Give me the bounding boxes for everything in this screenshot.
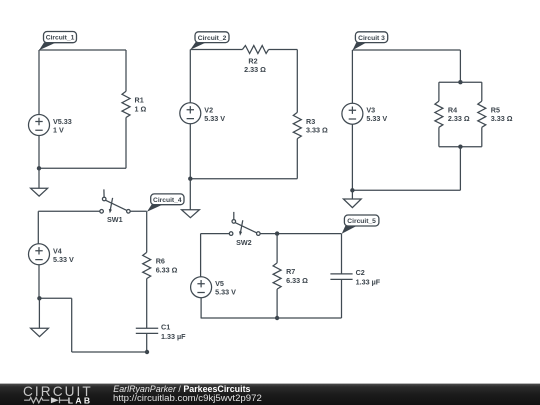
svg-text:2.33 Ω: 2.33 Ω [244, 65, 266, 74]
wire bottom circuit 2 [190, 178, 297, 180]
svg-text:6.33 Ω: 6.33 Ω [156, 265, 178, 274]
svg-text:R3: R3 [306, 117, 315, 126]
wire C2 lower lead [341, 279, 343, 318]
svg-text:Circuit_5: Circuit_5 [347, 218, 376, 225]
wire R6 to C1 [146, 279, 148, 329]
junction dot circuit 1 [37, 166, 41, 170]
junction dot circuit 4 left [37, 296, 41, 300]
svg-text:Circuit 3: Circuit 3 [358, 35, 385, 42]
resistor R1 [122, 91, 130, 117]
wire left lower circuit 2 [189, 124, 191, 179]
svg-text:R4: R4 [448, 106, 457, 115]
logo resistor squiggle and diode [24, 397, 68, 403]
wire R5 lower lead [481, 127, 483, 146]
svg-text:C1: C1 [161, 322, 170, 331]
svg-text:1 Ω: 1 Ω [135, 104, 147, 113]
wire right upper circuit 4 [146, 211, 148, 252]
wire top of circuit 1 [39, 49, 126, 51]
svg-text:Circuit_2: Circuit_2 [198, 35, 227, 42]
svg-text:1.33 µF: 1.33 µF [161, 332, 186, 341]
wire top bar parallel circuit 3 [439, 81, 482, 83]
svg-text:Circuit_1: Circuit_1 [46, 35, 75, 42]
wire R7 upper lead [276, 234, 278, 263]
junction dot circuit 4 bottom right [145, 350, 149, 354]
svg-text:5.33 V: 5.33 V [204, 114, 225, 123]
wire V5 lower lead [200, 298, 202, 318]
wire bottom circuit 5 [201, 317, 342, 319]
wire junction to riser circuit 4 [39, 297, 71, 299]
voltage source V2 [180, 103, 201, 124]
wire top-left of circuit 4 [38, 210, 100, 212]
ground circuit 1 [31, 168, 48, 196]
wire left riser circuit 4 [71, 298, 73, 352]
svg-text:5.33 V: 5.33 V [366, 114, 387, 123]
ground circuit 4 [31, 298, 49, 336]
capacitor C2 [330, 274, 352, 280]
wire SW2 to C2 corner [260, 233, 341, 235]
wire left lower circuit 1 [38, 136, 40, 169]
wire bottom circuit 1 [39, 167, 126, 169]
svg-text:R7: R7 [286, 267, 295, 276]
switch SW2 [229, 212, 260, 236]
wire left upper circuit 1 [38, 50, 40, 115]
node Circuit_1 flag [39, 32, 77, 51]
resistor R6 [143, 252, 151, 278]
wire R4 lower lead [438, 127, 440, 146]
wire right upper circuit 3 [459, 50, 461, 82]
wire from SW1 to corner [130, 210, 147, 212]
voltage source V3 [342, 103, 363, 124]
svg-text:http://circuitlab.com/c9kj5wvt: http://circuitlab.com/c9kj5wvt2p972 [113, 393, 262, 404]
wire left upper circuit 5 [200, 234, 202, 277]
wire right lower circuit 3 [459, 147, 461, 191]
svg-text:2.33 Ω: 2.33 Ω [448, 114, 470, 123]
wire bottom circuit 3 [352, 189, 460, 191]
wire R5 upper lead [481, 82, 483, 101]
wire C1 lower lead [146, 333, 148, 352]
resistor R5 [478, 101, 486, 127]
wire R4 upper lead [438, 82, 440, 101]
svg-text:SW1: SW1 [107, 215, 123, 224]
svg-text:R6: R6 [156, 257, 165, 266]
wire top-left of circuit 5 [201, 233, 230, 235]
junction dot top bar circuit 3 [458, 80, 462, 84]
capacitor C1 [136, 328, 158, 333]
voltage source V5 [191, 277, 212, 298]
node Circuit_2 flag [190, 32, 229, 50]
voltage source V4 [29, 244, 50, 265]
junction dot circuit 2 [188, 177, 192, 181]
node Circuit_4 flag [147, 194, 184, 212]
junction dot circuit 5 bottom [275, 316, 279, 320]
wire right lower circuit 1 [125, 118, 127, 169]
svg-text:C2: C2 [356, 268, 365, 277]
footer bar [0, 384, 540, 405]
svg-text:1 V: 1 V [53, 126, 64, 135]
resistor R7 [273, 263, 281, 289]
wire top-left of circuit 2 [190, 49, 242, 51]
ground circuit 3 [343, 190, 361, 207]
wire left upper circuit 2 [189, 50, 191, 103]
junction dot circuit 3 ground [350, 188, 354, 192]
wire top of circuit 3 [353, 49, 461, 51]
wire top-right of circuit 2 [269, 49, 298, 51]
resistor R3 [293, 112, 301, 138]
wire C2 upper lead [341, 234, 343, 274]
resistor R4 [435, 101, 443, 127]
wire right upper circuit 1 [125, 50, 127, 91]
svg-text:LAB: LAB [68, 395, 93, 405]
wire right lower circuit 2 [296, 139, 298, 179]
wire right upper circuit 2 [296, 50, 298, 113]
wire bottom bar parallel circuit 3 [439, 146, 482, 148]
svg-text:3.33 Ω: 3.33 Ω [491, 114, 513, 123]
node Circuit_5 flag [342, 215, 379, 234]
svg-text:6.33 Ω: 6.33 Ω [286, 276, 308, 285]
wire R7 lower lead [276, 289, 278, 318]
node Circuit 3 flag [353, 32, 388, 50]
wire left upper circuit 4 [37, 211, 39, 243]
svg-text:5.33 V: 5.33 V [53, 255, 74, 264]
svg-text:Circuit_4: Circuit_4 [153, 197, 182, 204]
svg-text:5.33 V: 5.33 V [215, 288, 236, 297]
wire left lower circuit 3 [351, 124, 353, 190]
switch SW1 [100, 189, 130, 213]
wire V4 to junction [38, 265, 40, 299]
voltage source V5.33 [29, 115, 50, 136]
resistor R2 [242, 46, 268, 54]
ground circuit 2 [182, 179, 200, 218]
junction dot circuit 5 top [275, 231, 279, 235]
wire left upper circuit 3 [351, 50, 353, 103]
junction dot bottom bar circuit 3 [458, 145, 462, 149]
svg-text:3.33 Ω: 3.33 Ω [306, 126, 328, 135]
wire bottom circuit 4 [72, 351, 147, 353]
svg-text:1.33 µF: 1.33 µF [356, 278, 381, 287]
svg-text:R5: R5 [491, 106, 500, 115]
svg-text:SW2: SW2 [236, 238, 252, 247]
